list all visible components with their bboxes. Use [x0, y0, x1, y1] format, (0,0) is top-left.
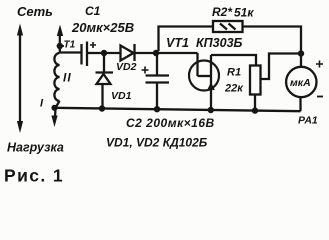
wire R2 left lead — [159, 27, 214, 52]
node VD1 bottom — [99, 105, 105, 111]
node R1 bottom — [252, 107, 258, 113]
svg-text:II: II — [63, 71, 72, 85]
meter PA1 — [286, 61, 323, 98]
svg-text:РА1: РА1 — [298, 115, 318, 127]
wire R2 right lead — [243, 27, 302, 52]
diode VD2 — [121, 44, 135, 61]
wire mains/load span arrow — [17, 24, 23, 134]
svg-text:VD1, VD2 КД102Б: VD1, VD2 КД102Б — [106, 136, 208, 150]
svg-text:R2*: R2* — [212, 5, 233, 19]
capacitor C2 — [142, 53, 170, 110]
wire C1 to node — [87, 52, 102, 54]
transformer T1 winding line with arrows — [51, 25, 63, 128]
svg-text:Сеть: Сеть — [17, 4, 53, 19]
node winding bottom — [51, 105, 57, 111]
wire top rail to gate — [156, 52, 198, 54]
wire meter top lead — [300, 54, 302, 68]
svg-text:мкА: мкА — [290, 77, 311, 89]
svg-text:51к: 51к — [234, 6, 254, 20]
node rectifier output — [153, 50, 159, 56]
wire bottom rail — [55, 108, 301, 111]
svg-text:Т1: Т1 — [64, 40, 76, 51]
node VD1 top junction — [101, 50, 107, 56]
svg-text:VT1: VT1 — [166, 36, 189, 50]
node C2 bottom — [154, 106, 160, 112]
svg-text:22к: 22к — [224, 83, 244, 95]
svg-text:КП303Б: КП303Б — [196, 36, 243, 50]
svg-text:Рис. 1: Рис. 1 — [4, 166, 64, 186]
wire drain to R1 top — [211, 55, 256, 66]
svg-text:VD1: VD1 — [111, 90, 132, 102]
svg-text:20мк×25В: 20мк×25В — [71, 20, 134, 35]
resistor R1 — [250, 66, 261, 95]
wire meter bottom lead — [299, 97, 301, 112]
capacitor C1 — [82, 42, 97, 67]
wire to C1 — [60, 51, 81, 53]
node source to rail — [208, 107, 214, 113]
resistor R2 — [213, 21, 243, 32]
wire VD2 cathode to node — [135, 52, 155, 54]
wire node to VD2 anode — [104, 52, 121, 54]
svg-text:Нагрузка: Нагрузка — [7, 141, 64, 155]
wire meter branch to R1 — [261, 54, 302, 80]
svg-text:С2 200мк×16В: С2 200мк×16В — [126, 116, 215, 130]
wire R1 bottom lead — [254, 95, 256, 111]
svg-text:С1: С1 — [85, 4, 101, 18]
svg-text:R1: R1 — [227, 67, 241, 79]
node meter plus junction — [298, 50, 304, 56]
svg-text:I: I — [40, 98, 44, 110]
svg-text:VD2: VD2 — [116, 61, 137, 73]
transistor VT1 — [189, 53, 219, 110]
node winding top — [57, 43, 63, 49]
diode VD1 — [96, 53, 114, 109]
